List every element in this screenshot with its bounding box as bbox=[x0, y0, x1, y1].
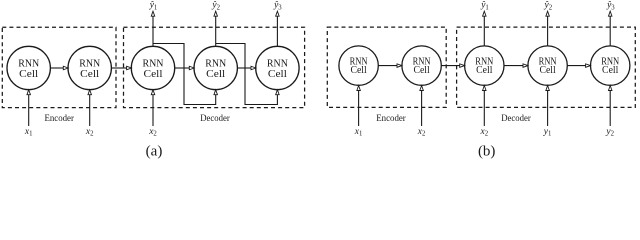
RNN cell a-D3 bbox=[256, 46, 299, 89]
RNN cell a-D2 bbox=[194, 46, 237, 89]
RNN cell a-E1 bbox=[7, 46, 50, 89]
svg-text:Cell: Cell bbox=[350, 65, 367, 76]
input arrow x1 (b) bbox=[357, 86, 361, 127]
svg-text:Cell: Cell bbox=[80, 68, 99, 80]
svg-text:Cell: Cell bbox=[539, 65, 556, 76]
svg-text:ŷ3: ŷ3 bbox=[273, 1, 282, 12]
decoder box (b) bbox=[457, 27, 636, 107]
wire a-E2 to a-D1 bbox=[111, 66, 131, 70]
input arrow x1 (a) bbox=[27, 90, 31, 126]
svg-text:Cell: Cell bbox=[144, 68, 163, 80]
decoder box (a) bbox=[124, 27, 305, 107]
svg-text:Cell: Cell bbox=[206, 68, 225, 80]
input arrow x2 (b decoder) bbox=[483, 86, 487, 127]
wire b-D2 to b-D3 bbox=[567, 64, 590, 68]
svg-text:Cell: Cell bbox=[476, 65, 493, 76]
output arrow yhat1 (b) bbox=[483, 11, 487, 46]
svg-text:Decoder: Decoder bbox=[501, 113, 531, 123]
output arrow yhat3 (b) bbox=[608, 11, 612, 46]
svg-text:ŷ1: ŷ1 bbox=[149, 1, 158, 12]
input arrow x2 (a decoder) bbox=[151, 90, 155, 126]
svg-text:Encoder: Encoder bbox=[44, 113, 74, 123]
svg-text:x2: x2 bbox=[85, 127, 94, 138]
wire b-E1 to b-E2 bbox=[378, 64, 402, 68]
wire b-D1 to b-D2 bbox=[504, 64, 528, 68]
svg-text:Cell: Cell bbox=[19, 68, 38, 80]
encoder box (a) bbox=[2, 27, 116, 107]
svg-text:Decoder: Decoder bbox=[200, 113, 230, 123]
output arrow yhat3 (a) bbox=[276, 11, 280, 46]
svg-text:x1: x1 bbox=[24, 127, 33, 138]
output arrow yhat2 (b) bbox=[546, 11, 550, 46]
svg-text:(a): (a) bbox=[146, 143, 163, 159]
RNN cell b-E2 bbox=[402, 46, 441, 85]
RNN cell b-D2 bbox=[528, 46, 567, 85]
svg-text:x2: x2 bbox=[417, 127, 426, 138]
svg-text:x2: x2 bbox=[479, 127, 488, 138]
svg-text:ŷ2: ŷ2 bbox=[543, 1, 552, 12]
svg-text:(b): (b) bbox=[478, 143, 496, 159]
svg-text:Cell: Cell bbox=[602, 65, 619, 76]
svg-text:ŷ2: ŷ2 bbox=[211, 1, 220, 12]
svg-text:Cell: Cell bbox=[268, 68, 287, 80]
input arrow x2 (a encoder) bbox=[88, 90, 92, 126]
wire a-E1 to a-E2 bbox=[50, 66, 68, 70]
encoder box (b) bbox=[327, 27, 446, 107]
svg-text:ŷ3: ŷ3 bbox=[606, 1, 615, 12]
input arrow y1 (b) bbox=[546, 86, 550, 127]
svg-text:y1: y1 bbox=[543, 127, 552, 138]
wire a-D2 to a-D3 bbox=[237, 66, 256, 70]
svg-text:x2: x2 bbox=[148, 127, 157, 138]
output arrow yhat2 (a) bbox=[214, 11, 218, 46]
RNN cell a-E2 bbox=[68, 46, 111, 89]
input arrow y2 (b) bbox=[608, 86, 612, 127]
wire a-D1 to a-D2 bbox=[175, 66, 195, 70]
input arrow x2 (b encoder) bbox=[420, 86, 424, 127]
wire b-E2 to b-D1 bbox=[441, 64, 464, 68]
svg-text:y2: y2 bbox=[605, 127, 614, 138]
feedback wire a-D1 output to a-D2 input bbox=[153, 44, 217, 105]
svg-text:x1: x1 bbox=[354, 127, 363, 138]
output arrow yhat1 (a) bbox=[151, 11, 155, 46]
RNN cell b-E1 bbox=[339, 46, 378, 85]
feedback wire a-D2 output to a-D3 input bbox=[216, 44, 279, 105]
svg-text:ŷ1: ŷ1 bbox=[480, 1, 489, 12]
svg-text:Cell: Cell bbox=[413, 65, 430, 76]
RNN cell b-D1 bbox=[465, 46, 504, 85]
RNN cell a-D1 bbox=[131, 46, 174, 89]
svg-text:Encoder: Encoder bbox=[376, 113, 406, 123]
RNN cell b-D3 bbox=[591, 46, 630, 85]
